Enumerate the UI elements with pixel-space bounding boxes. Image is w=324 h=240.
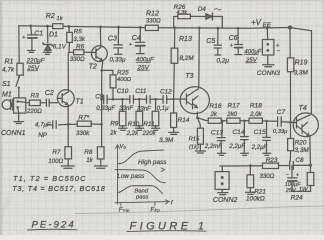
node C15 tap: [265, 120, 268, 123]
resistor R6: [69, 50, 92, 55]
wire output bottom return: [292, 190, 311, 192]
resistor R14: [171, 99, 177, 132]
wire lowpass ladder from T3 emitter: [197, 118, 208, 121]
resistor R26: [178, 14, 191, 19]
wire T1 collector up: [67, 53, 69, 91]
wire R26 to D4: [190, 15, 206, 17]
wire T4 collector from rail: [310, 31, 312, 113]
switch S1: [16, 76, 20, 89]
resistor R18: [249, 118, 262, 123]
capacitor C2: [46, 99, 57, 106]
capacitor C14: [241, 121, 249, 153]
wire R1 to S1: [18, 75, 21, 77]
resistor R10: [136, 99, 143, 128]
resistor R5: [67, 26, 73, 52]
capacitor C11: [147, 96, 164, 104]
zener diode D1: [43, 26, 53, 52]
wire T4 emitter down: [309, 136, 312, 165]
wire left supply drop: [18, 26, 20, 64]
capacitor C16 electrolytic output: [288, 166, 297, 192]
ground under R8: [94, 166, 107, 168]
wire T2 collector up: [99, 27, 101, 46]
capacitor C17 nonpolar 4.7uF: [47, 121, 68, 128]
graph f axis: [115, 200, 169, 204]
graph lowpass curve: [115, 170, 165, 183]
wire T3 emitter down: [196, 112, 198, 118]
transistor T4 darlington: [293, 113, 318, 137]
wire output rail: [220, 164, 311, 167]
capacitor C5: [214, 28, 221, 55]
capacitor C7: [278, 117, 294, 126]
ground under D1: [43, 52, 51, 54]
connector CONN3: [262, 28, 274, 64]
resistor R15: [197, 118, 203, 151]
transistor T3 darlington: [180, 87, 209, 114]
resistor R24: [307, 165, 314, 191]
diode D4: [206, 9, 221, 20]
capacitor C15: [263, 121, 271, 153]
ground under C15: [263, 153, 271, 155]
node T3 emitter junction: [196, 116, 199, 119]
resistor R3: [26, 100, 45, 106]
ground under C1: [27, 51, 35, 53]
transistor T1: [57, 90, 74, 107]
capacitor C6: [235, 28, 243, 54]
resistor R12: [145, 25, 158, 30]
wire stray pencil crease: [75, 206, 324, 214]
capacitor C13: [217, 121, 225, 153]
resistor R20: [288, 122, 294, 161]
ground under R21: [246, 192, 256, 194]
node T2 emitter junction: [100, 69, 103, 72]
resistor R1: [17, 63, 23, 75]
resistor R23: [263, 163, 279, 168]
ground under C13: [217, 153, 225, 155]
ground under R14: [169, 132, 179, 134]
ground under R9: [119, 128, 127, 130]
resistor R19: [287, 28, 293, 124]
resistor R25: [102, 70, 116, 100]
resistor R16: [208, 118, 221, 123]
resistor R9: [119, 99, 126, 128]
transistor T2: [92, 46, 108, 62]
wire C6 value fraction bars: [244, 54, 258, 62]
wire C4 value fraction bars: [136, 62, 151, 70]
wire D4 down to rail: [212, 16, 222, 28]
wire R17 to R18: [240, 120, 249, 122]
ground under R15: [195, 151, 205, 153]
resistor R7: [65, 124, 72, 165]
graph highpass curve: [118, 150, 164, 164]
resistor R13: [171, 28, 178, 99]
node highpass junctions: [67, 98, 157, 126]
node C13 tap: [221, 120, 224, 123]
ground under R10: [135, 128, 143, 130]
resistor R11: [152, 99, 159, 128]
capacitor C12: [163, 96, 181, 104]
ground under CONN3: [263, 65, 274, 67]
graph lowpass axis arrow: [161, 168, 165, 172]
capacitor C10: [130, 96, 147, 104]
microphone M1: [2, 98, 26, 113]
capacitor C1: [28, 26, 37, 50]
node C14 tap: [243, 120, 246, 123]
graph axis ticks: [121, 202, 155, 206]
wire FIGURE underline: [127, 230, 206, 233]
ground under M1: [14, 122, 23, 124]
wire R16 to R17: [221, 120, 227, 122]
wire R18 to C7: [262, 120, 277, 122]
resistor R8: [97, 147, 104, 166]
node output junctions: [249, 164, 312, 167]
graph V axis: [116, 145, 120, 204]
ground under R7: [61, 166, 74, 168]
ground under C14: [241, 153, 249, 155]
resistor R22 feedback: [68, 121, 101, 126]
wire S1 to M1: [18, 88, 20, 98]
capacitor C4: [136, 27, 145, 53]
capacitor C9: [102, 95, 130, 103]
resistor R17: [227, 118, 240, 123]
capacitor C8: [290, 161, 294, 169]
wire PE-924 underline: [28, 228, 78, 231]
graph bandpass curve: [118, 186, 163, 194]
wire R26 branch riser: [174, 16, 178, 27]
wire top +VEE rail: [19, 26, 312, 31]
resistor R21: [247, 166, 254, 192]
wire T1 emitter down: [67, 105, 69, 124]
wire T3 collector to rail: [198, 28, 201, 87]
node T3 base junction: [172, 98, 175, 101]
ground under CONN2: [218, 193, 228, 195]
connector CONN2: [215, 166, 229, 192]
ground under R11: [152, 128, 160, 130]
wire C1 value fraction bars: [27, 63, 41, 70]
wire M1 to ground: [18, 113, 20, 121]
node rail junction dots: [29, 25, 292, 30]
capacitor C3: [114, 27, 123, 54]
resistor R2: [53, 24, 63, 29]
wire T2 emitter down long drop: [102, 61, 103, 147]
